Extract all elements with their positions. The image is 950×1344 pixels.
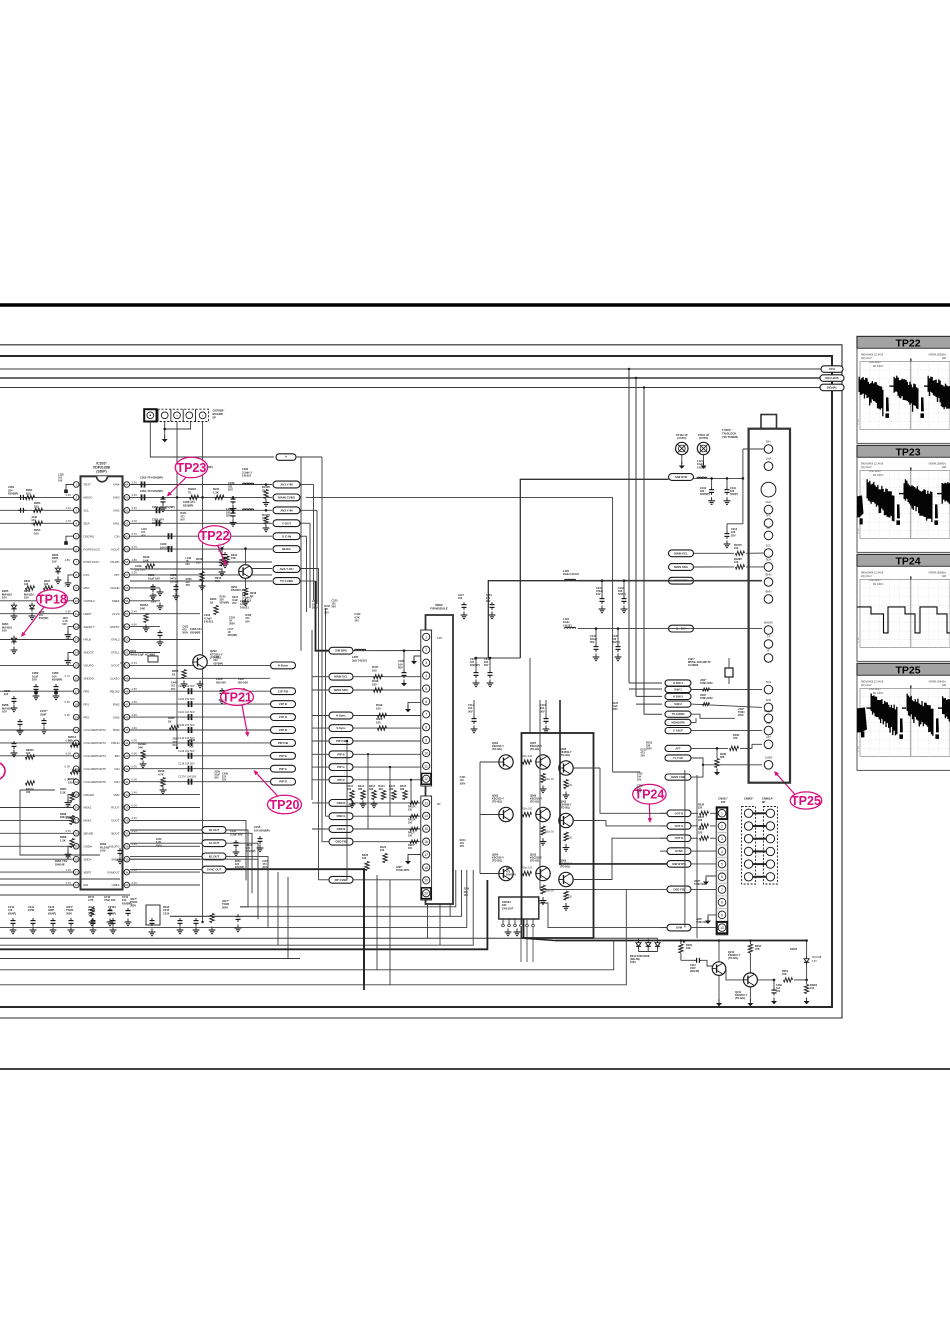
svg-text:104: 104 (810, 987, 815, 990)
svg-text:EW: EW (84, 883, 89, 887)
test point TP22 (198, 526, 230, 546)
svg-text:(2M: (2M (942, 684, 946, 687)
svg-text:50V: 50V (398, 666, 403, 670)
svg-text:OSD R: OSD R (337, 801, 346, 805)
CN501 pin 3 (718, 835, 726, 843)
svg-text:2.2K: 2.2K (60, 790, 66, 794)
svg-text:0.0V: 0.0V (65, 752, 71, 756)
CN501 pin 8 (718, 898, 726, 906)
wires pills to left vert (660, 812, 667, 814)
svg-text:SIGNAL: SIGNAL (827, 386, 838, 390)
svg-text:R2xx 1K: R2xx 1K (545, 778, 554, 781)
svg-text:SDA: SDA (766, 557, 772, 561)
svg-text:AFT: AFT (675, 746, 681, 750)
transistor Q211 (743, 973, 757, 987)
svg-text:20: 20 (75, 728, 79, 732)
net pill 2' AB IF (665, 728, 691, 734)
svg-text:2.2V: 2.2V (132, 881, 138, 885)
svg-text:0.0V: 0.0V (132, 765, 138, 769)
tuner top tab (761, 415, 777, 429)
net pill FIP CVBS (329, 876, 353, 883)
svg-text:AFT: AFT (766, 735, 772, 739)
right verticals up to connectors (684, 770, 686, 927)
svg-text:7: 7 (425, 713, 427, 717)
svg-text:PIP R: PIP R (279, 780, 287, 784)
long wire to OSD FB riser (0, 889, 626, 984)
svg-text:PIP F/B: PIP F/B (278, 741, 288, 745)
left resistor network R267 R266 R268 R269 (71, 743, 80, 747)
svg-text:R2xx 100: R2xx 100 (522, 867, 533, 870)
left nest from OUT pills (226, 830, 248, 907)
svg-text:V-Sync: V-Sync (336, 726, 346, 730)
CN801 pin pair 5 (744, 860, 752, 868)
array feed drop verticals (529, 658, 531, 733)
svg-text:SNDD: SNDD (111, 857, 119, 861)
svg-text:C203 474 63V(NP): C203 474 63V(NP) (152, 505, 175, 509)
svg-text:100: 100 (376, 706, 381, 710)
net pill Y1-Y-OU (665, 755, 691, 761)
svg-text:330: 330 (369, 788, 374, 791)
svg-text:50V: 50V (62, 623, 67, 626)
svg-text:KIN4: KIN4 (113, 483, 120, 487)
FIP gnd stubs (414, 656, 421, 660)
svg-text:TP20: TP20 (270, 798, 300, 812)
svg-text:10V: 10V (24, 596, 29, 600)
svg-text:G1 OUT: G1 OUT (209, 841, 220, 845)
CN501 pin 2 (718, 822, 726, 830)
bus wire SIGNAL (0, 387, 822, 389)
svg-text:(TO-92L): (TO-92L) (560, 754, 570, 757)
svg-text:(2M: (2M (942, 575, 946, 578)
net pill 21P B (271, 701, 296, 708)
svg-text:050 50V: 050 50V (216, 680, 226, 684)
svg-text:FIP.MODULE: FIP.MODULE (430, 607, 448, 611)
svg-text:3uH 14L021: 3uH 14L021 (352, 658, 367, 662)
svg-text:S/W BYB: S/W BYB (675, 475, 687, 479)
svg-text:H-Drive: H-Drive (278, 663, 289, 667)
svg-text:PIP F/B: PIP F/B (336, 739, 346, 743)
svg-text:21P G: 21P G (279, 715, 288, 719)
svg-text:62: 62 (125, 509, 129, 513)
svg-text:14: 14 (424, 814, 428, 818)
svg-text:25V: 25V (186, 584, 191, 587)
svg-text:MAIN SDA: MAIN SDA (674, 565, 688, 569)
FIP vertical taps (346, 741, 348, 880)
net pill 21P G (271, 714, 296, 721)
svg-text:MSK2: MSK2 (84, 806, 92, 810)
svg-text:21P R: 21P R (279, 728, 288, 732)
net pill OSD R (329, 800, 353, 807)
svg-text:980A/04/06 12:34:56: 980A/04/06 12:34:56 (861, 681, 884, 684)
bottom bus wires (0, 937, 658, 939)
svg-text:300V: 300V (222, 905, 228, 909)
svg-text:(2M: (2M (942, 466, 946, 469)
svg-text:1N4148: 1N4148 (55, 862, 65, 866)
svg-text:PIP B: PIP B (337, 752, 344, 756)
svg-text:(TO-92L): (TO-92L) (492, 748, 502, 751)
test point TP23 (175, 457, 207, 478)
svg-text:2(1)=2mV: 2(1)=2mV (861, 357, 872, 360)
KIC left nested corner wires (240, 870, 456, 907)
svg-text:3.9V: 3.9V (65, 493, 71, 497)
CN501 pin 10 (717, 922, 727, 933)
svg-text:HSUPO: HSUPO (109, 845, 120, 849)
svg-text:2'IF: 2'IF (766, 721, 771, 725)
svg-text:300V: 300V (262, 866, 268, 869)
svg-text:M1 10M 1: M1 10M 1 (873, 692, 884, 695)
net pill SIGNAL (820, 384, 844, 391)
svg-text:2(1)=2mV: 2(1)=2mV (861, 575, 872, 578)
page bottom rule (0, 1068, 950, 1070)
svg-text:13: 13 (424, 801, 428, 805)
svg-text:S/W BYPS: S/W BYPS (672, 862, 686, 866)
svg-text:1K: 1K (168, 719, 171, 723)
svg-text:300V: 300V (738, 714, 744, 717)
net pill MAIN SCL (329, 673, 353, 680)
svg-text:50V(P): 50V(P) (618, 593, 626, 596)
svg-text:SNDV: SNDV (84, 857, 92, 861)
svg-text:13: 13 (75, 638, 79, 642)
svg-text:MAIN CHB: MAIN CHB (671, 775, 684, 779)
svg-text:KIN3: KIN3 (113, 496, 120, 500)
left R256 cluster (70, 793, 74, 802)
FIP pin 19 (423, 877, 430, 884)
svg-text:100: 100 (26, 491, 31, 495)
net pill AFT (665, 745, 691, 751)
pill S/W BYPS right (669, 577, 694, 584)
svg-text:330: 330 (358, 788, 363, 791)
svg-text:PORT0/ACS: PORT0/ACS (84, 547, 100, 551)
svg-text:3: 3 (721, 837, 723, 841)
svg-text:330: 330 (379, 788, 384, 791)
svg-text:MAIN SCL: MAIN SCL (334, 675, 348, 679)
svg-text:C204 474 63V(NP): C204 474 63V(NP) (140, 489, 163, 493)
net pill H-Sync (329, 712, 353, 719)
svg-text:980A/04/06 12:34:56: 980A/04/06 12:34:56 (861, 354, 884, 357)
net pill AV1 Y-IN (273, 481, 300, 488)
svg-text:10: 10 (720, 926, 724, 930)
svg-text:25V: 25V (486, 600, 491, 603)
long wire to Q212 riser (0, 941, 614, 970)
svg-text:54: 54 (125, 612, 129, 616)
svg-text:2(1)=2mV: 2(1)=2mV (861, 684, 872, 687)
svg-text:50: 50 (125, 664, 129, 668)
svg-text:MONO: MONO (764, 709, 774, 713)
svg-text:5.6V: 5.6V (100, 849, 106, 853)
net pill S/W BYPS (667, 861, 691, 868)
svg-text:FBLIN: FBLIN (111, 741, 119, 745)
svg-text:63: 63 (125, 496, 129, 500)
tuner RF+ feed vertical (742, 449, 744, 524)
svg-text:100V: 100V (630, 961, 636, 964)
svg-text:M1 10M 1: M1 10M 1 (873, 474, 884, 477)
svg-text:C223 104 50V: C223 104 50V (178, 684, 195, 688)
IC left pin wires (66, 485, 73, 490)
svg-text:ISGND: ISGND (110, 586, 119, 590)
svg-text:MCU-BUS: MCU-BUS (825, 376, 838, 380)
svg-text:100: 100 (372, 682, 377, 686)
svg-text:21P B: 21P B (279, 702, 287, 706)
svg-text:47: 47 (125, 702, 129, 706)
svg-text:56K: 56K (720, 756, 725, 759)
svg-text:33: 33 (125, 883, 129, 887)
svg-text:2.6V: 2.6V (132, 713, 138, 717)
svg-text:FIP CVBS: FIP CVBS (335, 878, 348, 882)
svg-text:220: 220 (698, 819, 703, 822)
FIP pin 14 (423, 812, 430, 819)
svg-text:10P: 10P (721, 800, 726, 804)
svg-text:SVM: SVM (676, 926, 683, 930)
svg-text:19: 19 (75, 715, 79, 719)
svg-text:COLOR0/PORT6: COLOR0/PORT6 (84, 780, 107, 784)
svg-text:1: 1 (721, 812, 723, 816)
CN501 pin9 gnd (708, 915, 717, 919)
svg-text:39: 39 (125, 806, 129, 810)
FIP pin 6 (423, 698, 430, 705)
svg-text:330: 330 (347, 788, 352, 791)
KIC001 sync chip (499, 897, 539, 919)
svg-text:50V(P): 50V(P) (612, 641, 620, 644)
svg-text:RIN: RIN (115, 780, 120, 784)
svg-text:COLOR0/PORT2: COLOR0/PORT2 (84, 728, 107, 732)
svg-text:C220 104 50V: C220 104 50V (178, 723, 195, 727)
svg-text:AV1 Y-IN: AV1 Y-IN (280, 483, 292, 487)
svg-text:2.4V: 2.4V (132, 790, 138, 794)
svg-text:63V(NP): 63V(NP) (228, 634, 238, 637)
svg-text:GIN2: GIN2 (113, 715, 120, 719)
svg-text:1.4V: 1.4V (65, 506, 71, 510)
svg-text:BIN: BIN (115, 754, 120, 758)
svg-text:TEST: TEST (84, 483, 92, 487)
S/W BYB long feed wire (520, 479, 668, 658)
svg-text:57: 57 (125, 573, 129, 577)
svg-text:S C-IN: S C-IN (282, 534, 291, 538)
svg-text:(TO-92L): (TO-92L) (530, 801, 540, 804)
svg-text:TP21: TP21 (222, 690, 252, 704)
pill TV CVBS wire (130, 580, 272, 582)
svg-text:50V: 50V (590, 641, 595, 644)
svg-text:(TO-92L): (TO-92L) (728, 957, 738, 960)
svg-text:16V: 16V (32, 678, 37, 682)
svg-text:100: 100 (408, 835, 413, 838)
svg-text:TP23: TP23 (176, 461, 206, 475)
svg-text:R2xx 100: R2xx 100 (522, 808, 533, 811)
transistor Q003 (499, 807, 513, 821)
svg-text:SDA: SDA (84, 522, 90, 526)
svg-text:50V: 50V (484, 664, 489, 667)
svg-text:24K: 24K (140, 606, 145, 610)
svg-text:TV CVBS: TV CVBS (280, 579, 293, 583)
svg-text:100: 100 (34, 504, 39, 508)
svg-text:PIP G: PIP G (279, 767, 287, 771)
schematic inner border (0, 356, 832, 1007)
net pill AV2-Y-OU (273, 566, 300, 573)
svg-text:NORM:100MS/s: NORM:100MS/s (929, 572, 947, 575)
svg-text:HFLB: HFLB (84, 638, 91, 642)
svg-text:5.6K: 5.6K (143, 558, 149, 562)
svg-text:DSGND: DSGND (84, 534, 94, 538)
net pill VCC (821, 366, 843, 373)
svg-text:D2202: D2202 (790, 948, 798, 951)
schematic outer border (0, 345, 842, 1018)
svg-text:TP24: TP24 (895, 555, 920, 567)
net pill H S/W-1 (665, 680, 691, 686)
net pill H S/W-2 (665, 693, 691, 699)
FIP pin 15 (423, 825, 430, 832)
svg-text:14L031: 14L031 (697, 465, 706, 469)
CN801 pin pair 3 (744, 835, 752, 843)
svg-text:XTAL1: XTAL1 (111, 651, 120, 655)
SVM wire from KIC (539, 903, 667, 928)
svg-text:100: 100 (24, 583, 29, 586)
svg-text:SNDDO: SNDDO (84, 677, 95, 681)
svg-text:OUT G: OUT G (675, 824, 684, 828)
FIP wires from pills to pins (353, 650, 421, 652)
svg-text:100: 100 (68, 738, 73, 742)
net pill plus (276, 454, 296, 461)
svg-text:OSD G: OSD G (336, 814, 345, 818)
svg-text:63V(NP): 63V(NP) (220, 602, 230, 605)
net pill PIP G (329, 764, 353, 771)
svg-text:17: 17 (424, 853, 428, 857)
svg-text:6: 6 (721, 875, 723, 879)
test point TP24 (633, 784, 666, 804)
svg-text:8: 8 (425, 726, 427, 730)
net pill S/W-1 (665, 686, 691, 692)
SYNC OUT thick drop (363, 870, 365, 985)
bottom-right diodes D210 D209 D208 (638, 938, 640, 940)
svg-text:CN801*: CN801* (744, 797, 754, 801)
svg-text:('06 TUNER): ('06 TUNER) (722, 435, 738, 439)
svg-text:4: 4 (425, 674, 427, 678)
left extra resistors row pins (26, 586, 35, 590)
svg-text:MSK1: MSK1 (84, 819, 92, 823)
net pill OSD F/B (667, 886, 691, 893)
net pill OUT G (667, 823, 691, 830)
svg-text:3.7V: 3.7V (132, 532, 138, 536)
svg-text:300V: 300V (66, 911, 72, 915)
net pill MAIN CVBS (273, 494, 300, 501)
svg-text:GIN: GIN (114, 767, 119, 771)
svg-text:VSUPP: VSUPP (110, 560, 120, 564)
svg-text:50V(NP): 50V(NP) (700, 493, 710, 496)
svg-text:63V(NP): 63V(NP) (190, 630, 200, 634)
S/W BYPS left leg (488, 581, 578, 658)
svg-text:10: 10 (75, 599, 79, 603)
svg-text:OUT R: OUT R (675, 836, 684, 840)
svg-text:300V: 300V (31, 522, 37, 525)
svg-text:0.8V: 0.8V (65, 610, 71, 614)
svg-text:(AUTO): (AUTO) (677, 436, 686, 440)
FIP pin 1 (423, 633, 430, 640)
svg-text:1K: 1K (210, 600, 213, 604)
svg-text:25V: 25V (222, 779, 227, 782)
svg-text:(N4L4B): (N4L4B) (690, 970, 699, 973)
svg-text:(TO-92L): (TO-92L) (560, 807, 570, 810)
svg-text:3.4V: 3.4V (132, 493, 138, 497)
svg-text:MAIN SDA: MAIN SDA (334, 688, 348, 692)
svg-text:N-C: N-C (766, 514, 771, 518)
svg-text:C221 104 50V: C221 104 50V (178, 710, 195, 714)
svg-text:16V: 16V (172, 744, 177, 747)
svg-text:980A/04/06 12:34:56: 980A/04/06 12:34:56 (861, 463, 884, 466)
svg-text:TP25: TP25 (791, 794, 821, 808)
svg-text:25V: 25V (354, 619, 359, 622)
svg-text:18: 18 (75, 702, 79, 706)
svg-text:61: 61 (125, 522, 129, 526)
plus pill right wire (296, 456, 322, 458)
svg-text:4.2V: 4.2V (132, 816, 138, 820)
svg-text:PIP R: PIP R (337, 778, 344, 782)
svg-text:NORM:100MS/s: NORM:100MS/s (929, 681, 947, 684)
MAIN CHB wire (691, 765, 703, 777)
IC right pins (124, 482, 130, 488)
svg-text:31.5MHZ: 31.5MHZ (688, 664, 699, 667)
svg-text:0.0V: 0.0V (65, 713, 71, 717)
svg-text:16V: 16V (58, 480, 63, 483)
svg-text:22K 63V(NP): 22K 63V(NP) (60, 815, 76, 819)
S/W BPS thick feed (316, 581, 330, 651)
net pill PIP F/B (329, 738, 353, 745)
FIP pin 2 (423, 646, 430, 653)
svg-text:MAIN SCL: MAIN SCL (674, 551, 688, 555)
svg-text:0.0V: 0.0V (65, 765, 71, 769)
svg-text:PIP B: PIP B (279, 754, 287, 758)
CN801 pin pair 6 (744, 873, 752, 881)
IC U201 VDP3133B body (81, 476, 123, 889)
svg-text:0.0V: 0.0V (132, 752, 138, 756)
verticals from FIP down (427, 904, 429, 938)
svg-text:44: 44 (125, 741, 129, 745)
svg-text:(TO-92L): (TO-92L) (560, 866, 570, 869)
net pill PIP R (329, 776, 353, 783)
driver array box (522, 733, 594, 938)
FIP pin 17 (423, 851, 430, 858)
FIP pin 18 (423, 864, 430, 871)
svg-text:2.5V: 2.5V (132, 700, 138, 704)
svg-text:+: + (285, 455, 287, 459)
FIP pin 20 (422, 888, 431, 899)
svg-text:TV-AUDIO: TV-AUDIO (672, 712, 685, 716)
svg-text:HSTBY: HSTBY (110, 625, 120, 629)
svg-text:SN1: SN1 (766, 680, 772, 684)
svg-text:1.2V: 1.2V (65, 868, 71, 872)
svg-text:XTAL2: XTAL2 (111, 638, 120, 642)
scope TP23 grid (860, 470, 950, 538)
svg-text:2: 2 (425, 648, 427, 652)
page top rule (0, 303, 950, 306)
svg-text:50V: 50V (245, 620, 250, 623)
svg-text:52: 52 (125, 638, 129, 642)
net pill OSD G (329, 813, 353, 820)
transistor Q007 (536, 755, 550, 769)
net pill R1 OUT (202, 827, 226, 834)
svg-text:50V: 50V (468, 709, 473, 713)
net pill H-Drive (271, 662, 296, 669)
net pill AV2 Y-IN (273, 507, 300, 514)
svg-text:20: 20 (424, 892, 428, 896)
svg-text:2.4V: 2.4V (132, 610, 138, 614)
svg-text:4.8V: 4.8V (65, 558, 71, 562)
svg-text:C205 474 63V(NP): C205 474 63V(NP) (140, 476, 163, 480)
svg-text:104 63V(NP): 104 63V(NP) (254, 828, 270, 832)
svg-text:MAIN CVBS: MAIN CVBS (278, 496, 295, 500)
svg-text:100: 100 (26, 752, 31, 755)
svg-text:2.5V: 2.5V (132, 687, 138, 691)
svg-text:2' AB IF: 2' AB IF (673, 729, 683, 733)
svg-text:15: 15 (424, 827, 428, 831)
svg-text:37: 37 (125, 832, 129, 836)
